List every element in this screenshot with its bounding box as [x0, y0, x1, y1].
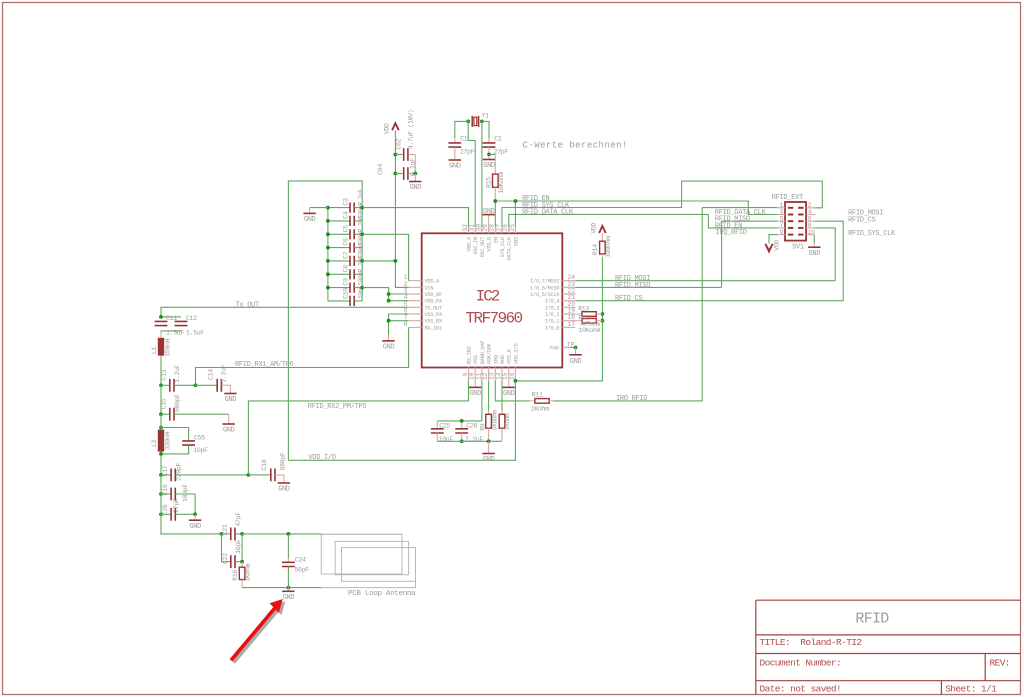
- svg-text:C2: C2: [494, 136, 502, 143]
- svg-text:GND: GND: [189, 523, 201, 531]
- IC2 pin PAD / TP: [550, 342, 577, 352]
- node C2/R15 branch: [487, 153, 491, 157]
- IC2 pin 25 EN2: [509, 224, 520, 246]
- wire net RFID_EN: [495, 201, 777, 227]
- svg-text:17: 17: [568, 321, 576, 328]
- wire C25/C26 bottom rail: [437, 440, 502, 442]
- svg-text:R13: R13: [578, 305, 589, 312]
- capacitor C64: [377, 158, 416, 180]
- svg-text:GND: GND: [449, 163, 461, 171]
- ground below C64: [409, 174, 421, 193]
- svg-text:BAND_GAP: BAND_GAP: [480, 341, 486, 364]
- IC2 pin 24 I/O_7/MOSI: [530, 274, 575, 285]
- svg-text:GND: GND: [304, 216, 316, 224]
- wire rail to antenna row: [161, 514, 222, 534]
- svg-text:VSS_A: VSS_A: [507, 348, 513, 364]
- resistor R12: [575, 314, 602, 334]
- IC2 pin 15 VSS_A: [502, 348, 513, 380]
- svg-text:VDD: VDD: [590, 222, 597, 233]
- wire crystal right to C2: [482, 121, 489, 142]
- wire net RFID_RX1_AM/TP6: [196, 327, 409, 385]
- wire net RFID_DATA_CLK: [509, 214, 778, 228]
- wire pin 8 RFID_MOSI riser: [814, 228, 835, 281]
- svg-text:Tx_OUT: Tx_OUT: [236, 302, 260, 310]
- capacitor C15: [161, 394, 229, 424]
- ground at C24 (arrow target): [282, 588, 294, 602]
- svg-text:C1: C1: [460, 136, 468, 143]
- IC2 pin 10 VSS: [469, 355, 480, 381]
- wire net IRQ_RFID to SV1 pin 1: [553, 208, 702, 401]
- node ladder right C7: [360, 259, 364, 263]
- svg-text:27pF: 27pF: [460, 148, 475, 155]
- svg-text:TITLE: Roland-R-TI2: TITLE: Roland-R-TI2: [760, 637, 863, 648]
- svg-text:C17: C17: [162, 465, 169, 476]
- node R12 tap: [601, 319, 605, 323]
- node C20 row: [159, 512, 163, 516]
- IC2 pin 31 OSC_IN: [469, 224, 480, 255]
- ground at pin 10 VSS: [469, 381, 481, 398]
- node L2 top: [159, 426, 163, 430]
- svg-text:RX_IN2: RX_IN2: [467, 346, 473, 364]
- svg-text:REV:: REV:: [990, 658, 1010, 669]
- svg-text:C7: C7: [342, 251, 349, 259]
- node RX2/C18 junction: [247, 473, 251, 477]
- node C19/C20 ground join: [193, 512, 197, 516]
- svg-text:C13: C13: [161, 369, 168, 380]
- node RX1 junction: [194, 383, 198, 387]
- ground at C19/C20: [189, 514, 201, 531]
- svg-text:I/O_4: I/O_4: [545, 299, 560, 305]
- wire ladder to pin 1 VDD_A: [362, 234, 408, 280]
- wire VDD rail down to pin 2 VIN: [395, 131, 408, 288]
- svg-text:4.7uF (10V): 4.7uF (10V): [407, 110, 414, 150]
- node C26 bottom: [460, 439, 464, 443]
- svg-text:47pF: 47pF: [235, 512, 242, 527]
- svg-text:L1: L1: [151, 346, 158, 354]
- svg-text:GND: GND: [469, 390, 481, 398]
- svg-text:10Kohm: 10Kohm: [579, 327, 601, 334]
- svg-text:RFID_EXT: RFID_EXT: [772, 194, 803, 202]
- svg-text:GND: GND: [383, 344, 395, 352]
- title block: [756, 600, 1021, 694]
- node pin3 tap: [387, 292, 391, 296]
- resistor R9: [480, 381, 499, 442]
- svg-text:OSC_OUT: OSC_OUT: [480, 237, 486, 257]
- node ladder right C5: [360, 232, 364, 236]
- svg-text:10nF: 10nF: [439, 436, 454, 443]
- svg-text:OSC_IN: OSC_IN: [473, 237, 479, 255]
- svg-text:100ohm: 100ohm: [605, 236, 612, 258]
- svg-text:TRF7960: TRF7960: [465, 310, 522, 328]
- svg-text:RFID_RX1_AM/TP6: RFID_RX1_AM/TP6: [235, 361, 294, 369]
- red arrow (annotation): [231, 599, 285, 663]
- svg-text:VIN: VIN: [425, 285, 434, 291]
- node VDD/C64 junction: [394, 172, 398, 176]
- wire rail L1-C15: [160, 385, 162, 414]
- ground below C1: [449, 160, 461, 171]
- svg-text:I/O_7/MOSI: I/O_7/MOSI: [530, 279, 559, 285]
- node ladder left C9: [326, 286, 330, 290]
- svg-text:IRQ_RFID: IRQ_RFID: [616, 395, 647, 403]
- wire OSC_OUT to pin 30: [481, 121, 483, 226]
- resistor R11: [495, 381, 553, 413]
- supply VDD (top left): [383, 123, 398, 134]
- capacitor C4: [328, 202, 365, 226]
- svg-text:C18: C18: [261, 459, 268, 470]
- svg-text:GND: GND: [225, 396, 237, 404]
- capacitor C20: [161, 475, 195, 521]
- svg-text:SYS_CLK: SYS_CLK: [500, 236, 506, 257]
- wire antenna bottom row: [242, 587, 321, 589]
- capacitor C6: [328, 228, 365, 252]
- svg-text:VSS: VSS: [473, 355, 479, 364]
- svg-text:R14: R14: [592, 244, 599, 255]
- svg-text:100pF: 100pF: [182, 484, 189, 502]
- svg-text:EN: EN: [493, 237, 499, 243]
- IC2 pin 19 I/O_2: [545, 308, 576, 319]
- svg-text:IC2: IC2: [476, 288, 500, 306]
- svg-text:R11: R11: [532, 392, 543, 399]
- wire ladder to VDD rail: [362, 260, 395, 262]
- supply VDD (down arrow at SV1): [765, 240, 780, 252]
- svg-text:C20: C20: [162, 504, 169, 515]
- svg-text:VDD_X: VDD_X: [467, 236, 473, 252]
- node ladder left C5: [326, 232, 330, 236]
- svg-text:I/O_1: I/O_1: [545, 319, 560, 325]
- svg-text:C-Werte berechnen!: C-Werte berechnen!: [523, 140, 628, 150]
- svg-text:680pF: 680pF: [280, 452, 287, 470]
- node ladder left C6: [326, 246, 330, 250]
- svg-text:RFID_RX2_PM/TP5: RFID_RX2_PM/TP5: [308, 403, 367, 411]
- svg-text:VDD_RF: VDD_RF: [425, 292, 443, 298]
- capacitor C18: [248, 452, 286, 483]
- capacitor C5: [328, 215, 365, 239]
- capacitor C13: [161, 364, 196, 391]
- crystal Y1: [472, 112, 489, 127]
- node pin 16 VDD_I/O: [514, 379, 518, 383]
- node ladder right C3: [360, 206, 364, 210]
- svg-text:330nH: 330nH: [165, 432, 172, 450]
- wire pin 11 to C25/C26 top rail: [437, 381, 482, 421]
- IC2 pin 12 ASK/OOK: [482, 343, 493, 381]
- wire pin 1 row (IRQ net): [702, 207, 777, 209]
- IC2 pin 8 RX_IN1: [404, 321, 442, 332]
- node OSC_OUT (crystal right): [480, 120, 484, 124]
- svg-text:16: 16: [509, 372, 516, 380]
- svg-text:1.2uF: 1.2uF: [174, 364, 181, 382]
- svg-text:PCB Loop Antenna: PCB Loop Antenna: [348, 590, 416, 598]
- svg-text:220pF: 220pF: [175, 463, 182, 481]
- wire ladder to pins 3,4 (VDD_RF/VDD_PA): [362, 288, 408, 301]
- svg-text:C14: C14: [208, 369, 215, 380]
- node ladder right C9: [360, 286, 364, 290]
- node L2 bottom: [159, 452, 163, 456]
- svg-text:10Kohm: 10Kohm: [498, 172, 505, 194]
- resistor R16: [232, 562, 252, 588]
- svg-text:VSS_RX: VSS_RX: [425, 319, 444, 325]
- capacitor C21: [222, 512, 243, 541]
- IC2 pin 29 VSS_D: [482, 224, 493, 252]
- capacitor C17: [161, 463, 248, 482]
- node OSC_IN (crystal left): [466, 120, 470, 124]
- connector SV1 RFID_EXT: [772, 194, 816, 252]
- svg-text:TP: TP: [567, 342, 575, 349]
- node C19 row: [159, 492, 163, 496]
- svg-text:C64: C64: [377, 164, 384, 175]
- node C22 right: [240, 560, 244, 564]
- svg-text:9: 9: [780, 229, 784, 236]
- capacitor C14: [196, 364, 231, 393]
- svg-text:I/O_6/MISO: I/O_6/MISO: [530, 285, 559, 291]
- IC2 pin 13 IRQ: [489, 355, 500, 381]
- svg-text:GND: GND: [503, 390, 515, 398]
- svg-text:Y1: Y1: [482, 112, 490, 119]
- capacitor C3: [328, 188, 365, 212]
- capacitor C22 (series branch): [222, 534, 243, 568]
- svg-text:VDD_I/O: VDD_I/O: [513, 344, 519, 364]
- svg-text:VDD_PA: VDD_PA: [425, 299, 444, 305]
- node pin4 tap: [387, 299, 391, 303]
- capacitor C12: [186, 315, 204, 336]
- svg-text:1.5uF: 1.5uF: [186, 329, 204, 336]
- ground at C15: [223, 424, 235, 435]
- svg-text:L2: L2: [151, 439, 158, 447]
- wire net TX_OUT: [161, 307, 409, 317]
- wire pin 9 to VDD: [769, 235, 778, 244]
- wire net RFID_RX2_PM/TP5: [248, 381, 468, 475]
- ground at SV1 pin 10: [808, 247, 820, 258]
- svg-text:GND: GND: [483, 208, 495, 216]
- svg-text:RX_IN1: RX_IN1: [425, 325, 443, 331]
- svg-text:1.5uF: 1.5uF: [166, 329, 184, 336]
- svg-text:1Kohm: 1Kohm: [531, 405, 549, 412]
- IC2 pin 16 VDD_I/O: [509, 344, 520, 381]
- svg-text:C5: C5: [342, 225, 349, 233]
- node C26 top: [460, 419, 464, 423]
- svg-text:GND: GND: [410, 184, 422, 192]
- svg-text:56pF: 56pF: [294, 566, 309, 573]
- capacitor C7: [328, 242, 365, 266]
- svg-text:C9: C9: [342, 278, 349, 286]
- svg-text:C6: C6: [342, 238, 349, 246]
- IC2 pin 23 I/O_6/MISO: [530, 281, 575, 292]
- IC2 pin 18 I/O_1: [545, 314, 576, 325]
- svg-text:PAD: PAD: [550, 346, 559, 352]
- IC2 pin 20 I/O_3: [545, 301, 576, 312]
- svg-text:RFID_CS: RFID_CS: [615, 295, 642, 303]
- node C21 right: [240, 532, 244, 536]
- svg-text:C8: C8: [342, 265, 349, 273]
- capacitor C25: [431, 421, 454, 443]
- capacitor C62: [395, 110, 415, 161]
- IC2 pin 6 VSS_PA: [404, 308, 443, 319]
- capacitor C19: [161, 484, 195, 515]
- svg-text:GND: GND: [278, 486, 290, 494]
- PCB loop antenna drawing: [321, 534, 415, 587]
- capacitor C1: [448, 136, 474, 160]
- wire pin 5 RFID_MISO riser: [722, 221, 778, 287]
- wire pin 10 to ground: [813, 235, 815, 247]
- svg-text:I/O_5/SCLK: I/O_5/SCLK: [530, 292, 560, 298]
- node C15 row: [159, 412, 163, 416]
- svg-text:VDD_I/O: VDD_I/O: [308, 454, 335, 462]
- node VDD tie: [394, 259, 398, 263]
- IC2 pin 14 MOD: [495, 355, 506, 381]
- capacitor C9: [328, 268, 365, 292]
- svg-text:VDD: VDD: [383, 123, 390, 134]
- resistor R14: [592, 233, 612, 258]
- svg-text:RFID_DATA_CLK: RFID_DATA_CLK: [522, 209, 574, 217]
- ground at C18: [278, 483, 290, 494]
- resistor R15: [486, 154, 505, 201]
- IC2 pin 28 EN: [489, 224, 500, 243]
- IC2 pin 4 VDD_PA: [404, 294, 443, 305]
- svg-text:MOD: MOD: [500, 355, 506, 364]
- pin 4 stub extension: [806, 214, 816, 216]
- wire OSC_IN to pin 31: [468, 121, 475, 226]
- resistor R10: [499, 381, 511, 442]
- svg-text:SV1: SV1: [792, 244, 804, 252]
- wire net RFID_CS: [575, 300, 843, 302]
- node C13 row: [159, 383, 163, 387]
- wire R14 rail down to VDD_I/O row: [515, 258, 602, 381]
- wire net RFID_MISO: [575, 286, 721, 288]
- node ladder left C8: [326, 272, 330, 276]
- node C17 row: [159, 473, 163, 477]
- node R13 tap: [601, 312, 605, 316]
- capacitor C55 (parallel with L2): [161, 428, 208, 454]
- svg-text:C15: C15: [161, 398, 168, 409]
- svg-text:C10: C10: [342, 288, 349, 299]
- svg-text:C4: C4: [342, 211, 349, 219]
- ground at pin 15 VSS_A: [503, 381, 515, 398]
- svg-text:VSS_D: VSS_D: [487, 237, 493, 252]
- capacitor C11: [155, 315, 188, 338]
- svg-text:R16: R16: [232, 569, 239, 580]
- svg-text:IRQ_RFID: IRQ_RFID: [716, 229, 747, 237]
- node ladder left C3: [326, 206, 330, 210]
- node C24 top: [287, 532, 291, 536]
- wire crystal left to C1: [455, 121, 468, 142]
- svg-text:C12: C12: [186, 315, 197, 322]
- svg-text:8: 8: [404, 321, 408, 328]
- IC2 pin 7 VSS_RX: [404, 314, 443, 325]
- svg-text:GND: GND: [483, 162, 495, 170]
- ground above pin 29 VSS_D: [482, 208, 494, 227]
- svg-text:10pF: 10pF: [193, 447, 208, 454]
- svg-text:1Kohm: 1Kohm: [245, 563, 252, 581]
- svg-text:C3: C3: [342, 198, 349, 206]
- wire VDD_I/O rail (ladder right) + top loop: [288, 181, 362, 460]
- svg-text:RFID_CS: RFID_CS: [848, 216, 875, 224]
- svg-text:R15: R15: [486, 177, 493, 188]
- svg-text:C62: C62: [396, 138, 403, 149]
- svg-text:DATA_CLK: DATA_CLK: [507, 236, 513, 260]
- svg-text:2,2uF: 2,2uF: [465, 436, 483, 443]
- svg-text:10pF: 10pF: [235, 539, 242, 554]
- svg-text:25: 25: [509, 224, 516, 232]
- svg-text:GND: GND: [283, 594, 295, 602]
- wire net RFID_MOSI: [575, 280, 835, 282]
- wire antenna top row: [242, 533, 321, 535]
- IC2 pin 3 VDD_RF: [404, 288, 442, 299]
- svg-text:C21: C21: [222, 524, 229, 535]
- svg-text:TX_OUT: TX_OUT: [425, 305, 443, 311]
- svg-text:C24: C24: [295, 556, 306, 563]
- capacitor C26: [455, 421, 483, 443]
- ground at C14: [224, 394, 236, 405]
- svg-text:VDD: VDD: [774, 240, 781, 251]
- wire C62-C64 right join: [413, 155, 417, 176]
- svg-text:GND: GND: [570, 358, 582, 366]
- svg-text:I/O_2: I/O_2: [545, 312, 560, 318]
- wire ladder to pin 32 VDD_X: [362, 208, 468, 227]
- node R9 bottom: [487, 439, 491, 443]
- svg-text:RFID: RFID: [855, 611, 889, 628]
- ground at TP pad: [569, 348, 581, 366]
- svg-text:I/O_3: I/O_3: [545, 305, 560, 311]
- svg-text:VSS_PA: VSS_PA: [425, 312, 444, 318]
- node C21 left: [220, 532, 224, 536]
- svg-text:VDD_A: VDD_A: [425, 279, 441, 285]
- svg-text:C22: C22: [222, 553, 229, 564]
- svg-text:RFID_MISO: RFID_MISO: [615, 282, 650, 290]
- svg-text:150nH: 150nH: [165, 338, 172, 356]
- svg-text:C26: C26: [466, 422, 477, 429]
- svg-text:IRQ: IRQ: [493, 355, 499, 364]
- IC2 pin 21 I/O_4: [545, 294, 576, 305]
- node ladder left C7: [326, 259, 330, 263]
- svg-text:Document Number:: Document Number:: [760, 658, 842, 669]
- svg-text:Date: not saved!: Date: not saved!: [760, 683, 842, 694]
- svg-text:I/O_0: I/O_0: [545, 325, 560, 331]
- svg-text:1Kohm: 1Kohm: [504, 413, 511, 430]
- ground at C26/R9: [482, 441, 494, 464]
- wire GND rail (ladder left): [327, 208, 329, 301]
- svg-text:GND: GND: [483, 456, 495, 464]
- wire pin 6 RFID_CS riser: [814, 221, 843, 301]
- svg-text:EN2: EN2: [513, 237, 519, 246]
- capacitor C8: [328, 255, 365, 279]
- IC2 pin 22 I/O_5/SCLK: [530, 288, 575, 299]
- svg-text:Sheet: 1/1: Sheet: 1/1: [945, 683, 997, 694]
- IC U: IC2 TRF7960 box: [422, 233, 563, 367]
- IC2 pin 9 RX_IN2: [462, 346, 473, 380]
- svg-text:C19: C19: [162, 484, 169, 495]
- resistor R13: [575, 305, 602, 316]
- IC2 pin 2 VIN: [404, 281, 434, 292]
- IC2 pin 5 TX_OUT: [404, 301, 442, 312]
- IC2 pin 27 SYS_CLK: [495, 224, 506, 258]
- node VDD/C62 junction: [394, 153, 398, 157]
- IC2 pin 11 BAND_GAP: [475, 341, 486, 381]
- svg-text:R9: R9: [480, 423, 487, 431]
- svg-text:6K8Ohm: 6K8Ohm: [492, 410, 499, 431]
- svg-text:C55: C55: [194, 435, 205, 442]
- supply VDD (above R14): [590, 222, 605, 233]
- svg-text:ASK/OOK: ASK/OOK: [487, 343, 493, 364]
- node EN2: [514, 199, 518, 203]
- svg-text:C25: C25: [439, 422, 450, 429]
- svg-text:680pF: 680pF: [174, 394, 181, 412]
- capacitor C2: [483, 136, 509, 160]
- svg-text:27pF: 27pF: [173, 498, 180, 513]
- svg-text:RFID_SYS_CLK: RFID_SYS_CLK: [848, 230, 896, 238]
- node C11 top: [159, 315, 163, 319]
- IC2 pin 30 OSC_OUT: [475, 224, 486, 258]
- node EN: [493, 199, 497, 203]
- svg-text:C11: C11: [166, 315, 177, 322]
